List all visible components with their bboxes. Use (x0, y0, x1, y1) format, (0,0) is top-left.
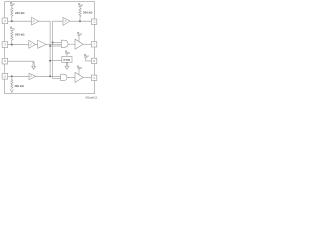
wire U1 output to vertical V1 (39, 20, 51, 22)
wire pin D to buffer U5 (8, 75, 29, 77)
node V1 terminus on wire (49, 75, 51, 77)
Vcc supply V7 to pin P7 (84, 56, 87, 58)
Vcc supply V1 (10, 4, 13, 6)
driver U4 (75, 39, 83, 49)
wire U3 output to pin P5 (70, 20, 92, 22)
node J2 (11, 44, 13, 46)
node J1 (11, 20, 13, 22)
Schmitt buffer U5 (29, 73, 36, 79)
svg-text:VCC: VCC (10, 2, 16, 6)
wire U6 output to pin P8 (83, 76, 91, 78)
U3 hysteresis mark (64, 20, 66, 22)
node on V1 at POR tap (49, 60, 51, 62)
wire U5 output to gate G2 (36, 75, 61, 77)
pin P8 square (91, 75, 96, 80)
resistor R2 (11, 32, 13, 45)
U5 hysteresis mark (30, 76, 32, 77)
driver U6 (75, 72, 83, 82)
AND gate G2 (61, 74, 67, 80)
Schmitt inverter U2A (29, 40, 36, 48)
svg-text:VCC: VCC (65, 50, 71, 54)
border frame of functional diagram (5, 2, 95, 94)
pin P7 square (91, 58, 96, 63)
svg-text:VCC: VCC (78, 3, 84, 7)
POR output arrow A2 (hollow, down) (65, 62, 69, 69)
node J4 pull-down tap (11, 75, 13, 77)
Schmitt buffer U1 (32, 17, 39, 25)
node on V1 feeding G1 bottom input (49, 45, 51, 47)
wire U2A to U2B (35, 43, 37, 45)
svg-text:VCC: VCC (10, 26, 16, 30)
U1 hysteresis mark (33, 21, 35, 23)
resistor R3 (79, 8, 81, 21)
svg-text:002aab123: 002aab123 (86, 97, 98, 99)
node on V2 feeding G1 top input (52, 42, 54, 44)
pin P2 square (2, 42, 8, 48)
U2A hysteresis mark (30, 44, 32, 46)
svg-text:VCC: VCC (84, 54, 90, 58)
enable arrow A1 (hollow, down) (32, 62, 36, 69)
svg-text:200 kΩ: 200 kΩ (15, 11, 25, 15)
svg-text:400 kΩ: 400 kΩ (14, 84, 24, 88)
Vcc supply V2 (10, 29, 13, 31)
wire V2 to G2 lower input (53, 78, 61, 80)
wire U4 output to pin P6 (83, 43, 91, 45)
pin P1 square (2, 18, 8, 24)
pin P3 square (2, 58, 8, 64)
wire pin B to node J2 and buffer chain (8, 44, 29, 46)
wire V1 to G1 bottom input (50, 45, 61, 47)
AND gate G1 (61, 40, 68, 47)
pin P6 square (91, 42, 96, 47)
node J3 pull-up tap (79, 20, 81, 22)
wire V1 to POR block input (50, 60, 62, 62)
wire vertical net V1 (49, 21, 51, 76)
svg-text:200 kΩ: 200 kΩ (15, 32, 25, 36)
wire G2 output to driver U6 (67, 76, 75, 78)
Vcc supply V5 on POR (65, 53, 68, 55)
wire vertical net V2 to top buffer U3 (53, 21, 63, 78)
pin P5 square (91, 19, 96, 24)
Vcc supply V6 on driver U6 (78, 68, 81, 70)
Vcc supply V4 on driver U4 (78, 34, 81, 36)
resistor R4 (11, 76, 13, 89)
wire U2B output to gate G1 middle input (46, 43, 61, 45)
Schmitt buffer U3 (63, 17, 70, 25)
resistor R1 (11, 8, 13, 22)
Vcc supply V3 (79, 5, 82, 7)
wire G1 output to driver U4 (68, 43, 75, 45)
wire pin A to node J1 and buffer U1 input (8, 20, 32, 22)
POR block (62, 56, 72, 62)
svg-text:200 kΩ: 200 kΩ (83, 10, 93, 14)
ground symbol (10, 89, 13, 92)
buffer U2B (38, 40, 47, 48)
svg-text:POR: POR (63, 58, 70, 62)
svg-text:VCC: VCC (77, 32, 83, 36)
svg-text:VCC: VCC (77, 65, 83, 69)
pin P4 square (2, 74, 8, 80)
wire pin C to arrow A1 (8, 61, 34, 62)
wire V2 to G1 top input (53, 42, 62, 44)
